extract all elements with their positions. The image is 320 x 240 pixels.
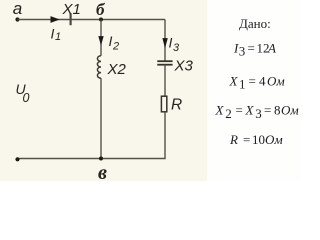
svg-text:0: 0 bbox=[23, 91, 30, 105]
given R = 10 Om bbox=[229, 132, 283, 147]
svg-text:4: 4 bbox=[259, 74, 266, 89]
svg-text:X2: X2 bbox=[107, 61, 127, 78]
svg-text:3: 3 bbox=[255, 106, 262, 121]
svg-text:10: 10 bbox=[252, 132, 265, 147]
svg-text:=: = bbox=[248, 41, 255, 56]
svg-text:в: в bbox=[98, 162, 107, 181]
wire branch 2 lower segment bbox=[100, 78, 102, 158]
svg-text:R: R bbox=[171, 97, 182, 114]
svg-text:2: 2 bbox=[225, 106, 232, 121]
svg-text:Ом: Ом bbox=[265, 132, 283, 147]
svg-text:8: 8 bbox=[274, 103, 281, 118]
given X1 = 4 Om bbox=[229, 74, 285, 92]
wire branch 2 upper segment bbox=[100, 20, 102, 56]
svg-text:X: X bbox=[229, 74, 239, 89]
svg-text:1: 1 bbox=[55, 31, 61, 43]
svg-text:X: X bbox=[215, 103, 225, 118]
wire top: a to corner bbox=[18, 19, 166, 21]
svg-text:3: 3 bbox=[173, 42, 180, 54]
given X2 = X3 = 8 Om bbox=[215, 103, 299, 122]
svg-text:А: А bbox=[267, 41, 276, 56]
terminal bottom left bbox=[15, 157, 19, 161]
inductor X2 bbox=[97, 56, 126, 78]
svg-text:I: I bbox=[51, 26, 55, 42]
svg-text:Ом: Ом bbox=[281, 103, 299, 118]
junction node v (в) bbox=[98, 157, 107, 184]
svg-text:=: = bbox=[236, 103, 243, 118]
source voltage U0 bbox=[16, 81, 30, 105]
capacitor X3 bbox=[157, 58, 193, 75]
svg-text:X: X bbox=[245, 103, 255, 118]
svg-text:X1: X1 bbox=[62, 1, 81, 18]
reactance X1 bbox=[62, 1, 81, 25]
current arrow I1 bbox=[51, 16, 62, 43]
node a bbox=[13, 0, 22, 22]
svg-text:=: = bbox=[243, 132, 250, 147]
svg-text:2: 2 bbox=[112, 41, 119, 53]
current arrow I2 bbox=[98, 33, 119, 53]
svg-text:Ом: Ом bbox=[267, 74, 285, 89]
resistor R bbox=[161, 96, 182, 113]
svg-text:1: 1 bbox=[239, 76, 246, 91]
svg-text:Дано:: Дано: bbox=[239, 16, 271, 31]
svg-text:I: I bbox=[109, 33, 113, 49]
wire branch 3 upper segment bbox=[164, 20, 166, 62]
node b (б) bbox=[96, 0, 106, 22]
current arrow I3 bbox=[162, 35, 180, 55]
svg-text:R: R bbox=[229, 132, 238, 147]
wire resistor to bottom bbox=[18, 112, 166, 159]
svg-text:=: = bbox=[264, 103, 271, 118]
svg-text:X3: X3 bbox=[174, 58, 194, 75]
wire cap to resistor bbox=[164, 65, 166, 97]
svg-text:a: a bbox=[13, 0, 22, 18]
svg-text:=: = bbox=[249, 74, 256, 89]
svg-text:I: I bbox=[169, 35, 173, 51]
given I3 = 12 A bbox=[233, 41, 276, 59]
svg-text:3: 3 bbox=[239, 43, 246, 58]
